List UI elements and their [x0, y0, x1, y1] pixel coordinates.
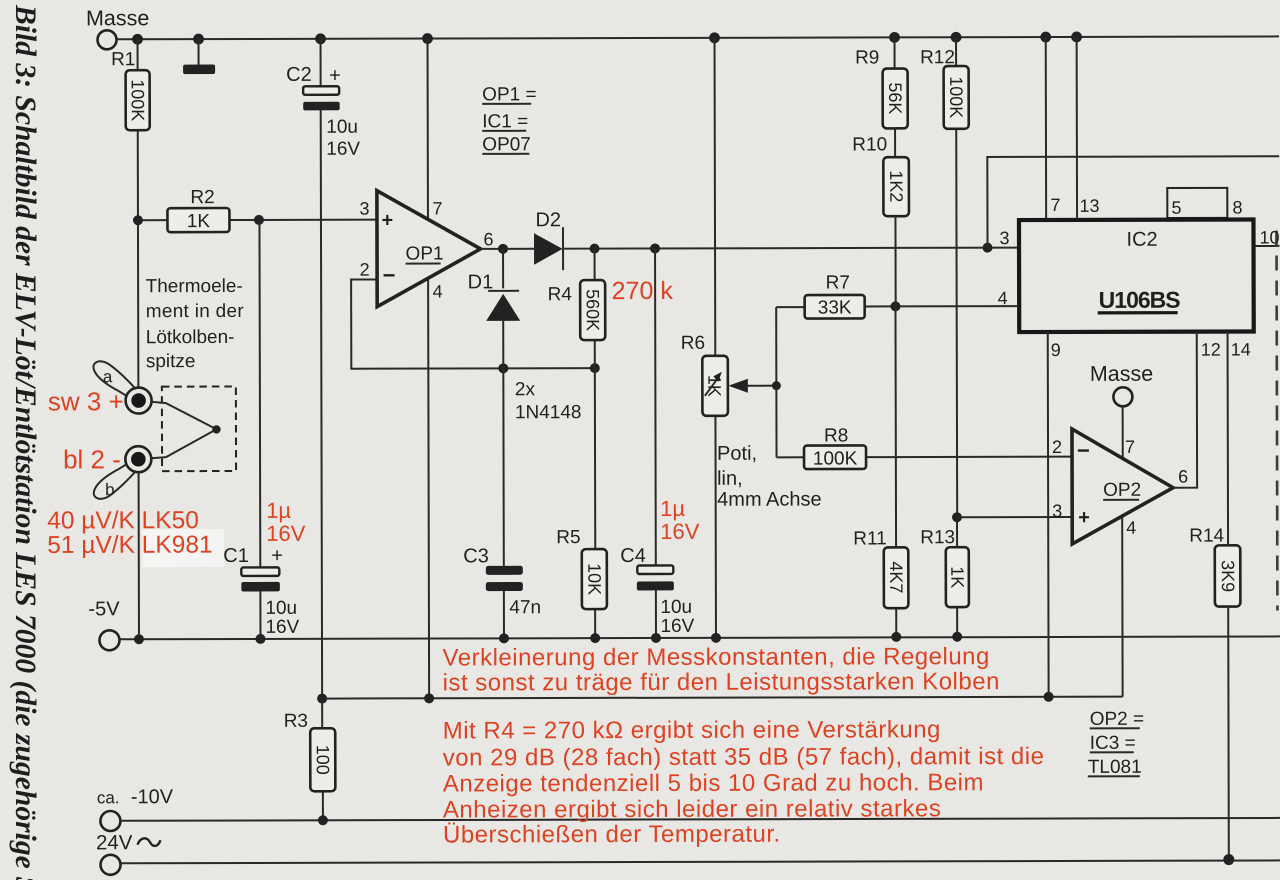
wire: pot tap vertical: [775, 307, 777, 457]
node: thermocouple dot: [212, 425, 220, 433]
resistor R2: [167, 208, 229, 232]
wire: negative rail y698: [322, 697, 1122, 699]
node: output row junctions: [590, 243, 993, 254]
resistor R3: [310, 728, 335, 791]
caption: Bild 3 figure caption (rotated): [8, 5, 41, 880]
terminal 24V: [101, 855, 121, 875]
wire: R13 column: [956, 517, 958, 636]
wire: R8 row: [777, 456, 1072, 459]
wire: R6 column from bus to rail: [715, 38, 716, 638]
ground: [198, 39, 200, 64]
thermocouple terminal sw (3+): [126, 387, 152, 413]
dashed page edge mark (right): [1275, 230, 1279, 610]
resistor R14: [1215, 545, 1241, 606]
resistor R12: [944, 66, 969, 129]
wire: D1 column: [502, 249, 505, 638]
terminal Masse (OP2): [1113, 387, 1132, 406]
wire: OP2 pin4 stub: [1121, 516, 1123, 696]
symbol ~ (24V AC): [137, 838, 160, 846]
capacitor C3: [486, 566, 523, 575]
wire: OP1 pin4 stub: [428, 278, 429, 698]
node: R3 bottom junction: [318, 815, 328, 825]
node: rail 698 junctions: [317, 692, 1054, 704]
wire: IC2 pin12 to OP2 output: [1173, 332, 1197, 488]
wire: IC2 pin14 to R14: [1227, 332, 1230, 546]
node: D1 tap: [498, 244, 508, 254]
node: R14 bottom junction: [1223, 854, 1234, 865]
wire: C2 column: [321, 39, 323, 699]
wire: IC2 pin13 stub: [1076, 37, 1078, 218]
wire: R14 bottom lead: [1227, 607, 1230, 860]
capacitor C2: [303, 86, 339, 95]
node: R7/R10/R11 junction: [890, 301, 900, 311]
wire loop a: [93, 361, 135, 396]
pot adjustment arrow (inside R6): [705, 377, 719, 396]
node: feedback junctions: [498, 363, 600, 373]
terminal Masse (top left): [97, 30, 116, 49]
terminal -5V: [99, 630, 119, 650]
wire loop b: [94, 464, 136, 499]
wire: 24V rail: [121, 860, 1280, 863]
capacitor C4: [637, 565, 673, 574]
dashed thermocouple box: [162, 386, 236, 471]
op-amp OP1: [377, 190, 481, 306]
wire: top supply bus: [117, 36, 1279, 39]
node: bus junction dots: [132, 32, 1082, 45]
wire: OP1 output row: [481, 248, 534, 250]
wire: IC2 pin10 stub: [1256, 245, 1280, 247]
wire: R1 column: [138, 39, 139, 639]
diode D2: [534, 233, 563, 265]
node: R13/OP2 pin3 junction: [952, 512, 962, 522]
resistor R9: [883, 69, 908, 129]
resistor R7: [805, 295, 865, 319]
wire: R2 row to OP1 pin3: [138, 219, 377, 222]
IC U106BS IC2: [1019, 220, 1254, 333]
node: R2 junctions: [133, 215, 264, 225]
wire: OP2 pin7 stub: [1122, 406, 1124, 458]
resistor R11: [884, 547, 909, 608]
wire: IC2 pin7 stub: [1045, 37, 1047, 218]
wire: R9 leads: [894, 37, 897, 157]
white correction patch: [142, 529, 224, 567]
IC U106BS pin5/8 bump: [1167, 188, 1227, 218]
wire: R7 row: [776, 306, 1017, 307]
wire: OP1 pin2 feedback loop: [351, 279, 595, 369]
wire: C4 column: [654, 248, 657, 637]
resistor R4: [580, 280, 605, 340]
resistor R5: [582, 549, 607, 609]
node: rail 638 junctions: [134, 632, 962, 645]
resistor R13: [946, 547, 969, 607]
wire: R5 column: [594, 368, 597, 638]
capacitor C1: [241, 567, 279, 576]
wire: OP2 pin3 row: [957, 516, 1072, 518]
wire: R4 column: [594, 249, 596, 368]
resistor R10: [883, 157, 909, 216]
wire: R3 column: [321, 699, 324, 821]
potentiometer R6: [702, 356, 728, 416]
wire: thermocouple junction: [151, 402, 217, 459]
wire: C1 column: [259, 220, 260, 639]
wire: D2 cathode to IC2 pin3: [563, 248, 1017, 249]
resistor R8: [804, 445, 866, 469]
wire: IC2 pin9 column: [1047, 332, 1050, 697]
wire: R12 column: [956, 37, 957, 517]
wire: OP1 pin7 stub: [427, 39, 429, 220]
op-amp OP2: [1072, 429, 1173, 544]
pot wiper arrow: [728, 379, 748, 393]
thermocouple terminal bl (2-): [125, 446, 151, 472]
resistor R1: [126, 70, 150, 130]
wire: R10 bottom lead: [894, 216, 896, 306]
node: pot tap junction: [772, 381, 781, 390]
wire: -10V rail: [120, 818, 1280, 821]
wire: R11 column: [894, 306, 897, 636]
wire: IC2 pin3 branch up: [987, 156, 1279, 247]
terminal ca.-10V: [100, 811, 120, 831]
wire: ground rail y638: [120, 636, 1280, 639]
diode D1: [488, 290, 519, 292]
